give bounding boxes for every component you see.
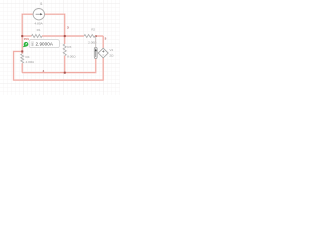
wire: mid rail left segment — [22, 35, 31, 37]
junction node (22.2,36) — [21, 35, 23, 37]
svg-text:R4: R4 — [26, 55, 30, 59]
wire: R4 bottom lead — [21, 63, 23, 72]
junction node (22.2,51.4) — [21, 50, 23, 52]
svg-text:4.00Ω: 4.00Ω — [26, 60, 35, 64]
grid major — [0, 0, 120, 95]
resistor R3 — [63, 44, 66, 56]
svg-text:I1: I1 — [40, 2, 43, 6]
wire: bottom rail and left jog — [14, 51, 104, 80]
resistor R4 — [21, 54, 24, 63]
junction node (64.7,72.4) — [64, 72, 66, 74]
resistor R1 — [32, 34, 43, 37]
svg-text:2.9000A: 2.9000A — [36, 41, 53, 46]
svg-text:2Ω: 2Ω — [109, 54, 114, 58]
wire core layer — [14, 14, 104, 80]
svg-text:V2: V2 — [109, 48, 113, 52]
wire: inner bottom rail (thin) — [22, 72, 96, 74]
wire: R3 bottom lead — [64, 56, 66, 73]
svg-text:8.00Ω: 8.00Ω — [67, 54, 76, 58]
wire: left riser from mid junction up and across to current source — [22, 14, 33, 51]
wire: mid rail centre segment — [42, 35, 84, 37]
wire: from current source right, corner down to mid wire — [45, 14, 65, 36]
grid minor — [0, 0, 120, 95]
dependent source V2 (diamond) — [98, 48, 108, 58]
junction node (96,36) — [95, 35, 97, 37]
svg-text:4.80A: 4.80A — [35, 21, 44, 25]
probe readout tooltip — [29, 40, 59, 48]
svg-text:1: 1 — [31, 42, 33, 46]
wire halo layer — [14, 14, 104, 80]
svg-text:R2: R2 — [91, 28, 95, 32]
resistor R2 — [84, 35, 95, 38]
wire: sensor drop — [95, 59, 97, 73]
wire: R4 top lead — [21, 51, 23, 53]
probe PR1 green dot — [23, 42, 29, 47]
svg-text:R1: R1 — [37, 28, 41, 32]
wire: mid rail right segment — [95, 35, 103, 37]
wire: R3 top lead — [64, 36, 66, 44]
svg-text:R3: R3 — [67, 45, 71, 49]
svg-text:PR1: PR1 — [24, 37, 30, 41]
current sensor arrow element (pill) — [94, 36, 97, 58]
wire: right riser down to diamond source — [102, 36, 104, 48]
junction node (64.7,36) — [64, 35, 66, 37]
current source I1 — [33, 9, 44, 20]
